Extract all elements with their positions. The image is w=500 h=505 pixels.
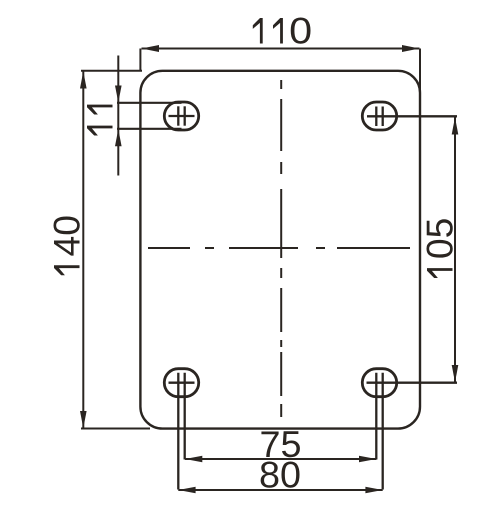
- dimension 75: left arrowhead: [185, 456, 202, 463]
- dimension 110: extension line right: [419, 49, 421, 95]
- dimension 75: dimension line: [185, 458, 376, 460]
- dimension 110: extension line left: [139, 49, 141, 71]
- dimension 110: text: [253, 18, 283, 44]
- dimension 140: top arrowhead: [80, 71, 87, 88]
- horizontal centerline (chain line): [148, 247, 410, 249]
- slot hole top-left: [164, 102, 198, 130]
- dimension 110: right arrowhead: [402, 45, 420, 52]
- svg-text:40: 40: [47, 215, 88, 256]
- dimension 80: right arrowhead: [365, 487, 382, 494]
- plate outline: [140, 71, 420, 429]
- dimension 11: upper leg with down arrowhead: [117, 56, 119, 103]
- dimension 11: lower leg with up arrowhead: [117, 129, 119, 176]
- dimension 75: right arrowhead: [359, 456, 376, 463]
- dimension 11: text: [87, 105, 113, 136]
- dimension 11: tangent extension line bottom: [117, 128, 182, 130]
- cross mark top-left hole: [169, 106, 195, 125]
- dimension 140: bottom arrowhead: [80, 411, 87, 428]
- dimension 105: text: [427, 268, 453, 278]
- dimension 11: middle segment: [117, 103, 119, 129]
- cross mark bottom-right hole + extensions to 75/80/105 dims: [367, 373, 458, 490]
- dimension 140: dimension line: [82, 71, 84, 428]
- svg-text:80: 80: [259, 454, 301, 495]
- dimension 140: extension line top: [81, 70, 142, 72]
- cross mark bottom-left hole + extensions to 75/80 dims: [169, 373, 195, 490]
- dimension 110: dimension line: [142, 48, 420, 50]
- dimension 105: dimension line: [454, 117, 456, 383]
- slot hole top-right: [362, 102, 396, 130]
- slot hole bottom-left: [164, 369, 198, 397]
- svg-text:05: 05: [420, 218, 461, 260]
- dimension 80: left arrowhead: [178, 487, 195, 494]
- dimension 140: text: [54, 265, 80, 275]
- cross mark top-right hole + extension to 105 dim: [367, 107, 457, 127]
- dimension 80: dimension line: [178, 489, 382, 491]
- dimension 11: tangent extension line top: [117, 102, 182, 104]
- svg-text:0: 0: [289, 11, 312, 52]
- slot hole bottom-right: [362, 369, 396, 397]
- dimension 140: extension line bottom: [81, 428, 150, 430]
- dimension 105: bottom arrowhead: [452, 365, 459, 382]
- vertical centerline (chain line): [280, 80, 282, 417]
- dimension 110: left arrowhead: [142, 45, 160, 52]
- dimension 105: top arrowhead: [452, 117, 459, 134]
